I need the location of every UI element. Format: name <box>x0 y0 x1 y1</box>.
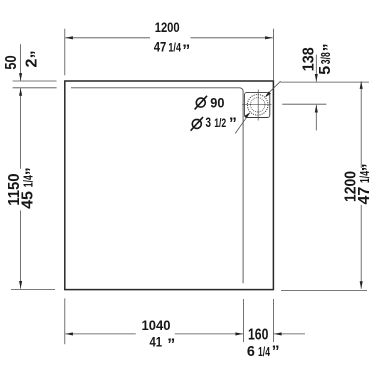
top dim arrow left <box>65 36 73 39</box>
svg-text:1200: 1200 <box>155 19 180 35</box>
drain crosshair horizontal <box>242 104 272 106</box>
bottom 1040 arrow right / 160 arrow left <box>235 332 243 335</box>
svg-text:6: 6 <box>247 343 255 360</box>
svg-text:138: 138 <box>301 47 318 71</box>
leader to drain upper right <box>266 81 281 95</box>
bottom extension line 160 left <box>242 299 244 342</box>
svg-text:47: 47 <box>154 39 167 55</box>
svg-text:41: 41 <box>150 334 163 350</box>
svg-text:1/4: 1/4 <box>358 171 372 183</box>
top dim arrow right <box>265 36 273 39</box>
leader to drain lower left (from 3 1/2 text) <box>235 113 249 133</box>
tray outline <box>65 81 274 290</box>
diameter symbol for 3 1/2 <box>191 117 203 131</box>
svg-text:1/4: 1/4 <box>258 345 270 359</box>
svg-text:90: 90 <box>210 94 224 110</box>
svg-text:”: ” <box>321 43 338 51</box>
svg-text:1/2: 1/2 <box>214 116 226 130</box>
tray inner rim line <box>71 88 243 283</box>
right 1200 dim line lower segment <box>360 205 362 289</box>
svg-text:50: 50 <box>3 55 20 69</box>
label 50 <box>3 55 20 69</box>
right 138 drain center extension line <box>282 103 326 105</box>
svg-text:”: ” <box>272 344 280 361</box>
label 5 3/8 inch <box>317 43 338 74</box>
right 1200 bottom extension line <box>281 290 367 292</box>
drain box <box>244 92 269 117</box>
left 50 dim arrow above <box>20 44 22 80</box>
left 1150 bottom extension line <box>11 288 55 290</box>
right 138 arrow above <box>315 55 317 82</box>
left 50 dim arrow below / 1150 dim line upper segment <box>20 88 22 169</box>
bottom 1040 arrow left <box>65 332 73 335</box>
svg-text:3/8: 3/8 <box>319 52 333 64</box>
svg-text:”: ” <box>182 43 190 60</box>
bottom extension line left edge <box>64 298 66 344</box>
svg-text:”: ” <box>360 163 377 171</box>
svg-text:”: ” <box>29 50 46 58</box>
label 47 1/4 inch right <box>356 163 377 204</box>
label 138 <box>301 47 318 71</box>
label 2 inch <box>24 50 46 67</box>
label 1200 right <box>342 171 359 202</box>
svg-text:47: 47 <box>356 187 373 205</box>
svg-text:5: 5 <box>317 66 334 75</box>
bottom extension line right edge <box>272 299 274 342</box>
left 50 dim extension lines <box>13 80 57 82</box>
svg-text:”: ” <box>229 116 237 133</box>
top dim line <box>65 37 150 39</box>
left 1150 dim line lower segment <box>20 211 22 289</box>
top dim extension line left <box>64 29 66 76</box>
bottom 160 outside arrow right <box>274 333 305 335</box>
label 1150 <box>6 173 23 205</box>
svg-text:160: 160 <box>248 327 268 344</box>
svg-text:1040: 1040 <box>142 317 171 333</box>
svg-text:1/4: 1/4 <box>168 43 181 55</box>
diameter symbol for 90 <box>195 96 207 110</box>
svg-text:3: 3 <box>206 114 212 130</box>
top dim extension line right <box>272 29 274 81</box>
svg-text:”: ” <box>167 336 175 353</box>
svg-text:1/4: 1/4 <box>22 175 36 187</box>
label 45 1/4 inch <box>20 167 41 209</box>
right 138 arrow below <box>315 105 317 131</box>
bottom 1040 dim line <box>65 333 136 335</box>
drain inner circle <box>251 98 265 112</box>
right 1200 dim line upper segment <box>360 81 362 168</box>
svg-text:45: 45 <box>20 191 37 209</box>
right 138 top extension line <box>281 81 370 83</box>
svg-text:2: 2 <box>24 59 41 68</box>
svg-text:”: ” <box>24 167 41 175</box>
drain crosshair vertical <box>257 90 259 121</box>
drain circle D90 <box>247 95 268 116</box>
